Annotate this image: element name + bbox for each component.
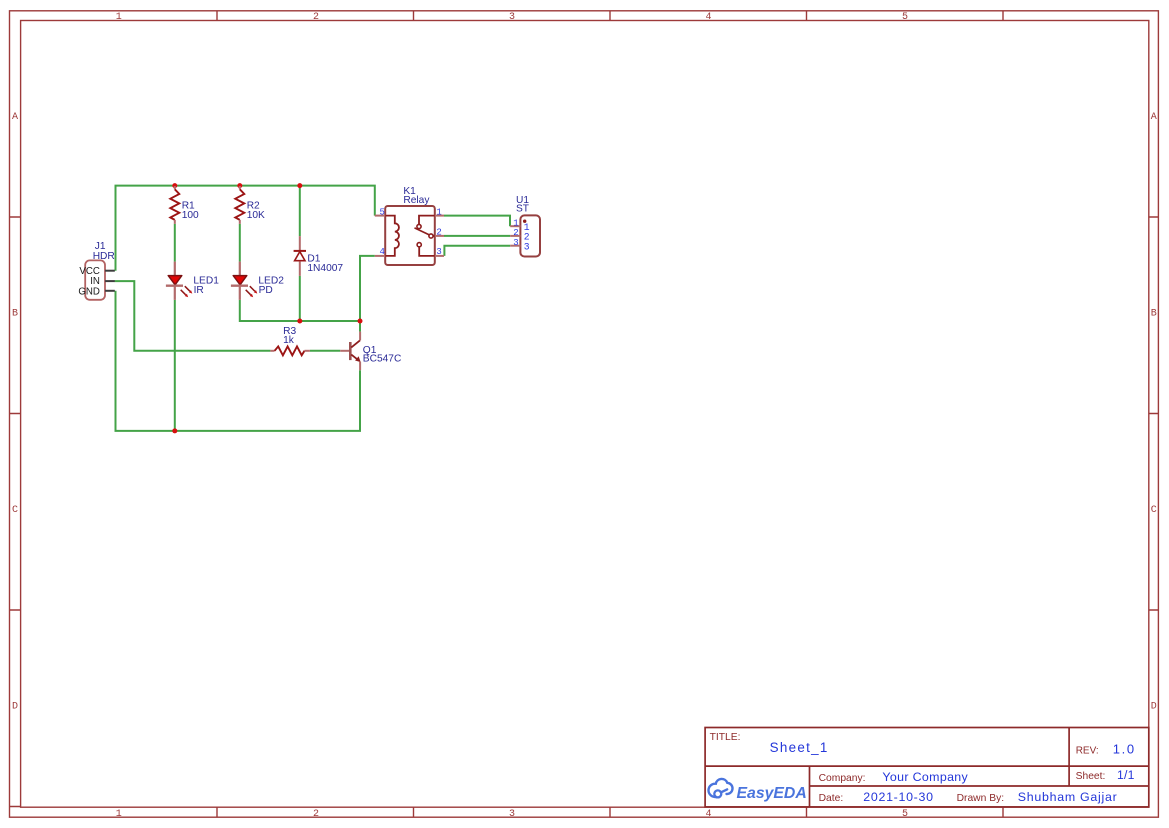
label R1: [182, 201, 195, 212]
svg-text:C: C: [1151, 505, 1157, 516]
wire net VCC: J1.VCC up, top rail, down to relay pin 5: [116, 186, 375, 271]
U1 pin 3 stub: [510, 245, 520, 247]
connector J1 body: [85, 260, 105, 299]
junction top rail / D1: [297, 183, 302, 188]
wire R3 right to Q1 base: [310, 350, 340, 352]
U1 pin number 3: [513, 238, 518, 248]
svg-text:1: 1: [116, 809, 122, 820]
svg-text:Your Company: Your Company: [882, 770, 968, 784]
label LED2 value PD: [259, 285, 273, 296]
svg-text:4: 4: [705, 12, 711, 23]
label D1 value 1N4007: [307, 263, 343, 274]
label R2 value 10K: [247, 210, 265, 221]
diode D1: [294, 236, 306, 276]
wire LED2 bottom to mid net: [240, 300, 360, 321]
resistor R1: [170, 186, 179, 224]
resistor R3: [270, 346, 310, 355]
svg-text:100: 100: [182, 210, 199, 221]
wire relay pin 1 to U1 pin 1: [444, 216, 510, 227]
J1 pin name VCC: [79, 266, 99, 277]
junction mid net / D1: [297, 319, 302, 324]
svg-text:2: 2: [313, 12, 319, 23]
svg-text:3: 3: [509, 809, 515, 820]
svg-text:1N4007: 1N4007: [307, 263, 343, 274]
svg-text:4: 4: [705, 809, 711, 820]
label Q1: [363, 345, 377, 356]
svg-text:Shubham Gajjar: Shubham Gajjar: [1018, 790, 1118, 804]
label K1 value Relay: [403, 195, 430, 206]
svg-text:3: 3: [524, 241, 530, 252]
label Q1 value BC547C: [363, 354, 402, 365]
svg-text:5: 5: [379, 207, 384, 217]
relay K1 pin number 2: [436, 227, 441, 237]
relay K1 pin 2 stub: [435, 235, 444, 237]
wire relay pin 2 to U1 pin 2: [444, 235, 510, 237]
J1 pin name GND: [78, 286, 100, 297]
J1 pin name IN: [90, 276, 100, 287]
svg-text:TITLE:: TITLE:: [710, 732, 741, 743]
label R3: [283, 326, 296, 337]
relay K1 pin 3 stub: [435, 255, 444, 257]
U1 pin number 2: [513, 228, 518, 238]
label LED1 value IR: [194, 285, 204, 296]
svg-text:1.0: 1.0: [1113, 741, 1136, 756]
wire net GND: J1.GND down, bottom rail, up to Q1 emitter: [116, 291, 361, 431]
svg-text:2: 2: [513, 228, 518, 238]
svg-text:D: D: [12, 701, 18, 712]
svg-text:5: 5: [902, 12, 908, 23]
svg-text:1/1: 1/1: [1117, 768, 1135, 782]
svg-text:3: 3: [509, 12, 515, 23]
connector U1 body: [520, 215, 540, 256]
svg-text:10K: 10K: [247, 210, 265, 221]
relay K1 body: [385, 206, 435, 265]
svg-text:3: 3: [436, 247, 441, 257]
relay K1 pin number 1: [436, 207, 441, 217]
svg-text:3: 3: [513, 238, 518, 248]
relay K1 pin 4 stub: [375, 255, 385, 257]
svg-text:REV:: REV:: [1076, 745, 1099, 756]
TITLEBLOCK: [705, 728, 1149, 807]
junction mid net / Q1 collector: [358, 319, 363, 324]
label LED2: [258, 276, 284, 287]
label U1: [516, 195, 529, 206]
svg-text:Company:: Company:: [819, 773, 866, 784]
U1 pin 2 stub: [510, 235, 520, 237]
relay K1 pin 1 stub: [435, 215, 444, 217]
svg-text:Drawn By:: Drawn By:: [957, 793, 1005, 804]
relay K1 pin 5 stub: [375, 215, 385, 217]
relay K1 switch: [415, 216, 435, 256]
label R2: [247, 201, 260, 212]
relay K1 pin number 4: [379, 247, 384, 257]
wire mid net to Q1 collector: [359, 321, 361, 332]
resistor R2: [235, 186, 244, 224]
label J1: [95, 241, 106, 252]
label D1: [307, 253, 320, 264]
svg-text:PD: PD: [259, 285, 273, 296]
transistor Q1: [340, 332, 361, 371]
svg-text:ST: ST: [516, 204, 529, 215]
relay K1 pin number 3: [436, 247, 441, 257]
svg-text:5: 5: [902, 809, 908, 820]
U1 pin 1 marker dot: [523, 220, 526, 223]
wire relay pin 3 to U1 pin 3: [444, 246, 510, 256]
junction top rail / R1: [172, 183, 177, 188]
U1 pin number 1: [513, 218, 518, 228]
relay K1 coil: [385, 216, 399, 256]
svg-text:BC547C: BC547C: [363, 354, 402, 365]
relay K1 pin number 5: [379, 207, 384, 217]
LED LED1: [166, 262, 192, 300]
svg-text:Date:: Date:: [819, 793, 844, 804]
J1 pin GND stub: [105, 290, 115, 292]
J1 pin IN stub: [105, 280, 115, 282]
svg-text:GND: GND: [78, 286, 100, 297]
svg-text:4: 4: [379, 247, 384, 257]
label R3 value 1k: [283, 335, 295, 346]
U1 pin name 3: [524, 241, 530, 252]
svg-text:IR: IR: [194, 285, 204, 296]
svg-text:D: D: [1151, 701, 1157, 712]
svg-text:Relay: Relay: [403, 195, 430, 206]
svg-text:2021-10-30: 2021-10-30: [863, 790, 933, 804]
svg-text:Sheet:: Sheet:: [1076, 771, 1106, 782]
wire R2 bottom to LED2 top: [239, 224, 241, 262]
wire LED1 bottom to GND rail: [174, 300, 176, 431]
J1 pin VCC stub: [105, 270, 115, 272]
junction top rail / R2: [237, 183, 242, 188]
svg-text:2: 2: [436, 227, 441, 237]
label K1: [403, 186, 416, 197]
svg-text:B: B: [12, 308, 18, 319]
label J1 value HDR: [93, 251, 115, 262]
wire net IN: J1.IN right, down, to R3 left: [115, 281, 271, 351]
label LED1: [193, 276, 219, 287]
svg-text:2: 2: [313, 809, 319, 820]
wire D1 bottom to mid net: [299, 276, 301, 321]
svg-text:B: B: [1151, 308, 1157, 319]
svg-text:C: C: [12, 505, 18, 516]
wire mid net up to relay pin 4: [360, 256, 375, 321]
svg-text:A: A: [12, 112, 18, 123]
svg-text:EasyEDA: EasyEDA: [737, 785, 807, 802]
junction bottom rail / LED1: [172, 428, 177, 433]
svg-text:HDR: HDR: [93, 251, 115, 262]
label U1 value ST: [516, 204, 529, 215]
svg-text:1: 1: [436, 207, 441, 217]
svg-text:Sheet_1: Sheet_1: [770, 740, 829, 755]
svg-text:1: 1: [513, 218, 518, 228]
svg-text:1k: 1k: [283, 335, 295, 346]
label R1 value 100: [182, 210, 199, 221]
svg-text:A: A: [1151, 112, 1157, 123]
U1 pin name 2: [524, 232, 530, 243]
CIRCUIT: [78, 183, 540, 433]
wire R1 bottom to LED1 top: [174, 224, 176, 262]
svg-text:1: 1: [116, 12, 122, 23]
U1 pin 1 stub: [510, 225, 520, 227]
U1 pin name 1: [524, 222, 530, 233]
LED LED2: [231, 262, 257, 300]
wire top rail to D1 anode: [299, 186, 301, 237]
